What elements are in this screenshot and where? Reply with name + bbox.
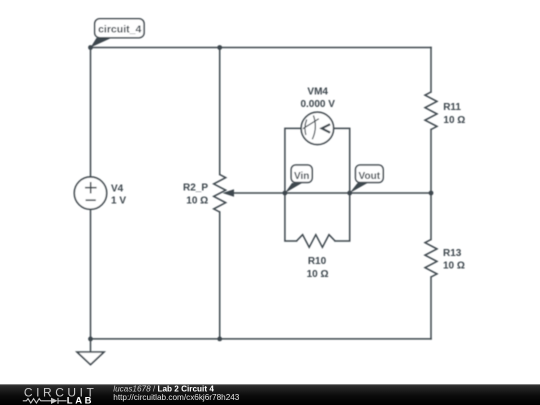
footer logo resistor-diode symbol: [23, 398, 67, 404]
wire left vertical upper: [90, 48, 92, 177]
svg-text:10 Ω: 10 Ω: [307, 269, 329, 280]
resistor R10: [297, 235, 336, 248]
wire right vertical middle: [430, 130, 432, 240]
svg-text:10 Ω: 10 Ω: [443, 261, 465, 272]
wire ground stem: [90, 339, 92, 352]
svg-text:Vin: Vin: [294, 171, 309, 182]
svg-text:10 Ω: 10 Ω: [443, 115, 465, 126]
svg-text:LAB: LAB: [67, 396, 94, 405]
svg-text:0.000 V: 0.000 V: [300, 99, 335, 110]
svg-text:R2_P: R2_P: [183, 183, 208, 194]
wire right vertical bottom: [430, 277, 432, 339]
wire middle vertical lower: [219, 212, 221, 339]
node Vin junction: [283, 191, 288, 196]
wire top horizontal: [91, 47, 432, 49]
node bottom-middle junction: [217, 337, 222, 342]
svg-text:V4: V4: [111, 184, 124, 195]
svg-text:VM4: VM4: [307, 86, 328, 97]
wire R10 loop left: [285, 193, 297, 241]
node right junction: [429, 191, 434, 196]
wire Vout branch up: [334, 128, 350, 193]
wire wiper to right rail: [233, 192, 432, 194]
ground: [77, 352, 104, 365]
svg-text:10 Ω: 10 Ω: [186, 195, 208, 206]
footer logo diode triangle: [51, 398, 58, 404]
svg-text:Vout: Vout: [359, 171, 381, 182]
voltage source V4: [74, 177, 106, 209]
wire middle vertical upper: [219, 48, 221, 175]
wire Vin branch up: [285, 128, 301, 193]
svg-text:circuit_4: circuit_4: [98, 23, 141, 35]
node Vout junction: [347, 191, 352, 196]
node Vin flag: [285, 165, 312, 193]
node bottom-left junction: [88, 337, 93, 342]
node Vout flag: [350, 165, 384, 193]
svg-text:http://circuitlab.com/cx6kj6r7: http://circuitlab.com/cx6kj6r78h243: [113, 393, 240, 402]
node circuit_4 flag: [91, 19, 145, 48]
wire R10 loop right: [335, 193, 350, 241]
potentiometer wiper arrow: [223, 189, 235, 197]
svg-text:R10: R10: [308, 256, 327, 267]
wire bottom horizontal: [91, 338, 432, 340]
wire right vertical top: [430, 48, 432, 93]
wire left vertical lower: [90, 209, 92, 339]
resistor R2_P (potentiometer): [214, 175, 226, 213]
svg-text:1 V: 1 V: [111, 195, 126, 206]
resistor R13: [425, 240, 437, 278]
svg-text:R11: R11: [443, 102, 461, 113]
resistor R11: [425, 92, 437, 130]
node top-left junction: [88, 45, 93, 50]
node top-middle junction: [217, 45, 222, 50]
svg-text:R13: R13: [443, 248, 462, 259]
voltmeter VM4: [301, 112, 333, 144]
